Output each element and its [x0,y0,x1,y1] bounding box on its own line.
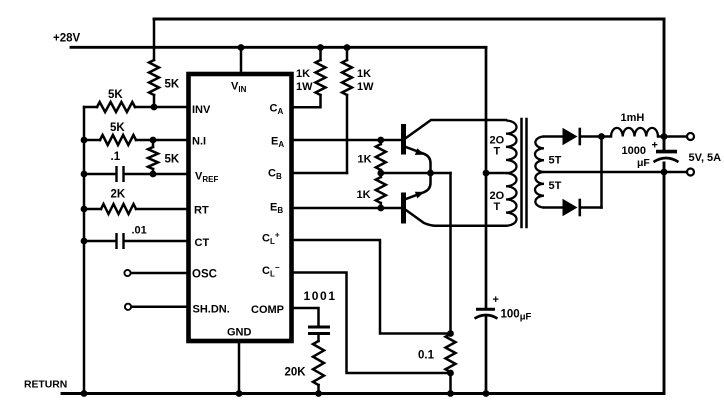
svg-text:5K: 5K [165,154,180,166]
svg-text:1K: 1K [357,189,371,201]
svg-text:1mH: 1mH [621,112,645,124]
svg-text:RT: RT [194,205,209,217]
svg-text:+: + [652,140,658,152]
svg-text:1W: 1W [296,81,313,93]
svg-text:μF: μF [637,157,650,169]
svg-text:.1: .1 [111,151,121,163]
svg-text:5K: 5K [108,89,123,101]
svg-text:2K: 2K [111,189,126,201]
svg-text:RETURN: RETURN [24,380,67,391]
svg-text:.01: .01 [132,225,147,237]
svg-text:COMP: COMP [251,304,284,316]
svg-text:5T: 5T [549,180,562,192]
svg-text:N.I: N.I [192,136,206,148]
svg-text:1001: 1001 [304,289,337,303]
svg-text:100μF: 100μF [501,309,532,323]
svg-text:20K: 20K [285,367,307,379]
svg-text:CT: CT [195,237,210,249]
svg-text:1K: 1K [296,68,310,80]
svg-text:SH.DN.: SH.DN. [193,304,230,316]
svg-text:INV: INV [192,104,211,116]
svg-text:T: T [494,201,501,213]
svg-text:0.1: 0.1 [418,350,435,362]
svg-text:5V, 5A: 5V, 5A [689,152,722,164]
svg-text:OSC: OSC [192,269,217,281]
svg-text:1K: 1K [358,154,372,166]
svg-text:1K: 1K [357,68,371,80]
svg-text:GND: GND [227,327,252,339]
svg-text:+: + [493,294,499,306]
svg-text:1W: 1W [357,81,374,93]
svg-text:5K: 5K [110,122,125,134]
svg-text:1000: 1000 [622,145,646,157]
svg-text:5T: 5T [549,155,562,167]
svg-text:T: T [494,146,501,158]
svg-text:5K: 5K [165,79,180,91]
svg-text:+28V: +28V [53,33,81,45]
